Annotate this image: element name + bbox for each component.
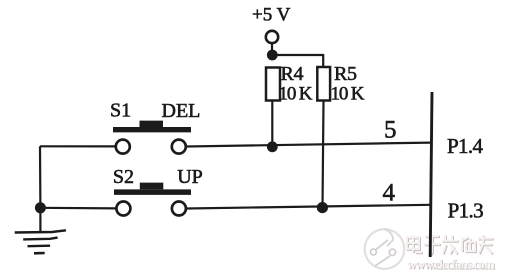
svg-text:DEL: DEL	[162, 100, 201, 122]
wire: row2 right segment to port	[187, 205, 431, 209]
node: +5V junction dot	[267, 50, 278, 61]
svg-text:10 K: 10 K	[279, 84, 313, 105]
wire: R5 bottom down to row2	[323, 101, 324, 208]
svg-text:5: 5	[384, 117, 397, 144]
ground	[39, 208, 41, 232]
node: row1 junction dot	[267, 141, 278, 152]
svg-text:R4: R4	[281, 63, 304, 85]
resistor R5	[317, 67, 330, 101]
svg-text:S2: S2	[113, 166, 134, 188]
wire: row1 right segment to port	[187, 143, 431, 147]
svg-text:10 K: 10 K	[331, 84, 365, 105]
switch S2 body	[114, 183, 191, 195]
svg-text:P1.3: P1.3	[448, 199, 484, 223]
port bar P1	[430, 92, 432, 257]
svg-text:UP: UP	[177, 166, 203, 188]
watermark logo	[365, 229, 405, 269]
wire: row2 left segment	[40, 207, 115, 210]
wire: R4 bottom to row1	[271, 100, 273, 147]
svg-text:4: 4	[383, 180, 396, 207]
resistor R4	[266, 68, 280, 101]
svg-text:R5: R5	[334, 63, 357, 85]
svg-text:S1: S1	[110, 100, 131, 122]
switch S1 body	[113, 121, 191, 133]
wire: junction to R5 top	[272, 55, 323, 68]
node: row2 junction dot (R5)	[317, 202, 328, 213]
wire: terminal to junction	[271, 43, 273, 52]
power terminal	[266, 31, 278, 43]
node: left junction dot	[35, 202, 46, 213]
wire: left bus vertical	[39, 146, 42, 208]
svg-text:www.elecfans.com: www.elecfans.com	[407, 257, 495, 272]
wire: row1 left segment	[40, 145, 115, 147]
svg-text:P1.4: P1.4	[447, 134, 484, 158]
svg-text:+5 V: +5 V	[252, 5, 291, 26]
